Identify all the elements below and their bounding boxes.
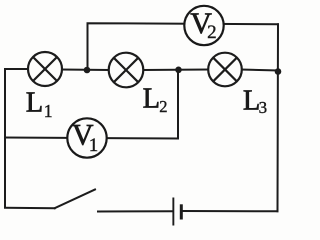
svg-text:1: 1 [89,135,99,156]
wire left to L1 [5,68,29,70]
svg-text:2: 2 [159,97,167,116]
lamp L2 [109,53,144,88]
svg-text:3: 3 [259,98,268,117]
wire right vertical [277,24,280,211]
switch S blade [55,190,95,209]
node B junction dot [175,67,182,74]
svg-text:L: L [26,87,43,118]
wire bottom left [5,207,55,209]
wire switch contact to battery [98,210,172,212]
wire left vertical [4,69,6,208]
svg-text:L: L [143,84,160,115]
wire battery to right corner [182,210,278,212]
lamp L1 [28,52,62,86]
wire from node B down to V1 branch [5,70,178,139]
svg-text:1: 1 [44,101,53,121]
wire L1 to L2 [61,69,109,72]
battery short plate [180,204,183,219]
battery long plate [172,198,174,226]
label L2 [143,84,168,117]
lamp L3 [208,53,242,87]
label L3 [243,86,267,117]
node A junction dot [84,67,91,74]
wire top from node A up and across to V2 and right corner [88,23,279,70]
svg-text:2: 2 [207,22,217,43]
wire L2 to L3 [143,69,209,72]
voltmeter V2 [184,6,223,45]
label L1 [26,87,53,121]
wire L3 to right vertical [241,70,278,71]
voltmeter V1 [67,118,106,157]
node C junction dot [275,68,282,75]
